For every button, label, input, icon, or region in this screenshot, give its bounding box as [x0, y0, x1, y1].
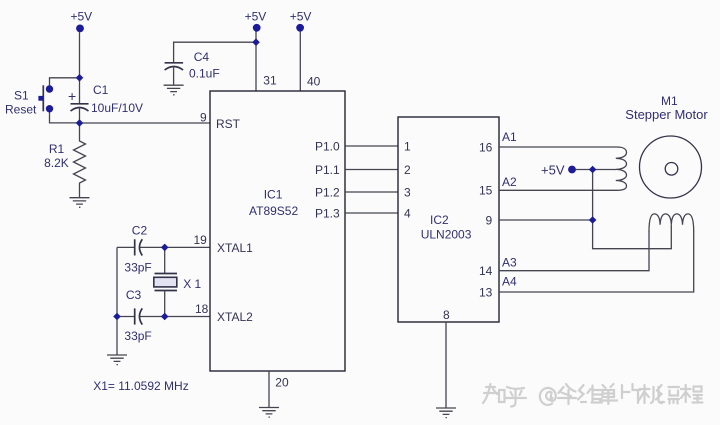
svg-text:XTAL1: XTAL1: [217, 241, 253, 255]
svg-text:2: 2: [404, 163, 411, 177]
svg-text:4: 4: [404, 207, 411, 221]
svg-text:18: 18: [195, 302, 209, 316]
svg-text:19: 19: [194, 233, 208, 247]
svg-text:P1.0: P1.0: [315, 140, 340, 154]
svg-text:8.2K: 8.2K: [44, 156, 69, 170]
svg-text:A2: A2: [502, 175, 517, 189]
svg-text:X1= 11.0592 MHz: X1= 11.0592 MHz: [93, 379, 189, 393]
svg-text:A1: A1: [502, 130, 517, 144]
svg-text:S1: S1: [14, 89, 29, 103]
svg-text:13: 13: [479, 286, 493, 300]
svg-text:AT89S52: AT89S52: [249, 204, 298, 218]
svg-text:C3: C3: [126, 288, 142, 302]
svg-text:+5V: +5V: [71, 10, 93, 24]
svg-text:A4: A4: [502, 275, 517, 289]
svg-text:P1.3: P1.3: [315, 207, 340, 221]
svg-text:9: 9: [486, 214, 493, 228]
svg-text:+5V: +5V: [541, 163, 565, 178]
svg-text:Stepper Motor: Stepper Motor: [625, 107, 708, 122]
svg-text:10uF/10V: 10uF/10V: [91, 101, 143, 115]
svg-text:20: 20: [275, 376, 289, 390]
svg-text:9: 9: [200, 111, 207, 125]
svg-text:14: 14: [479, 264, 493, 278]
svg-text:+5V: +5V: [245, 10, 267, 24]
svg-text:33pF: 33pF: [124, 329, 151, 343]
svg-text:C2: C2: [132, 224, 148, 238]
svg-text:1: 1: [404, 140, 411, 154]
svg-text:40: 40: [307, 75, 321, 89]
svg-text:C4: C4: [194, 50, 210, 64]
svg-text:P1.1: P1.1: [315, 163, 340, 177]
svg-text:C1: C1: [93, 83, 109, 97]
svg-text:IC2: IC2: [430, 213, 449, 227]
svg-text:+: +: [68, 88, 76, 104]
svg-text:RST: RST: [216, 117, 241, 131]
svg-text:P1.2: P1.2: [315, 186, 340, 200]
svg-text:33pF: 33pF: [124, 261, 151, 275]
svg-text:A3: A3: [502, 256, 517, 270]
svg-text:Reset: Reset: [5, 103, 37, 117]
svg-text:IC1: IC1: [264, 188, 283, 202]
svg-text:X 1: X 1: [183, 277, 201, 291]
svg-text:15: 15: [479, 184, 493, 198]
svg-text:0.1uF: 0.1uF: [189, 67, 220, 81]
svg-text:8: 8: [443, 308, 450, 322]
svg-text:R1: R1: [49, 142, 65, 156]
svg-text:ULN2003: ULN2003: [421, 228, 472, 242]
svg-text:+5V: +5V: [290, 10, 312, 24]
svg-text:3: 3: [404, 186, 411, 200]
svg-text:31: 31: [263, 74, 277, 88]
svg-text:16: 16: [479, 141, 493, 155]
svg-text:XTAL2: XTAL2: [217, 310, 253, 324]
svg-text:M1: M1: [661, 94, 678, 108]
